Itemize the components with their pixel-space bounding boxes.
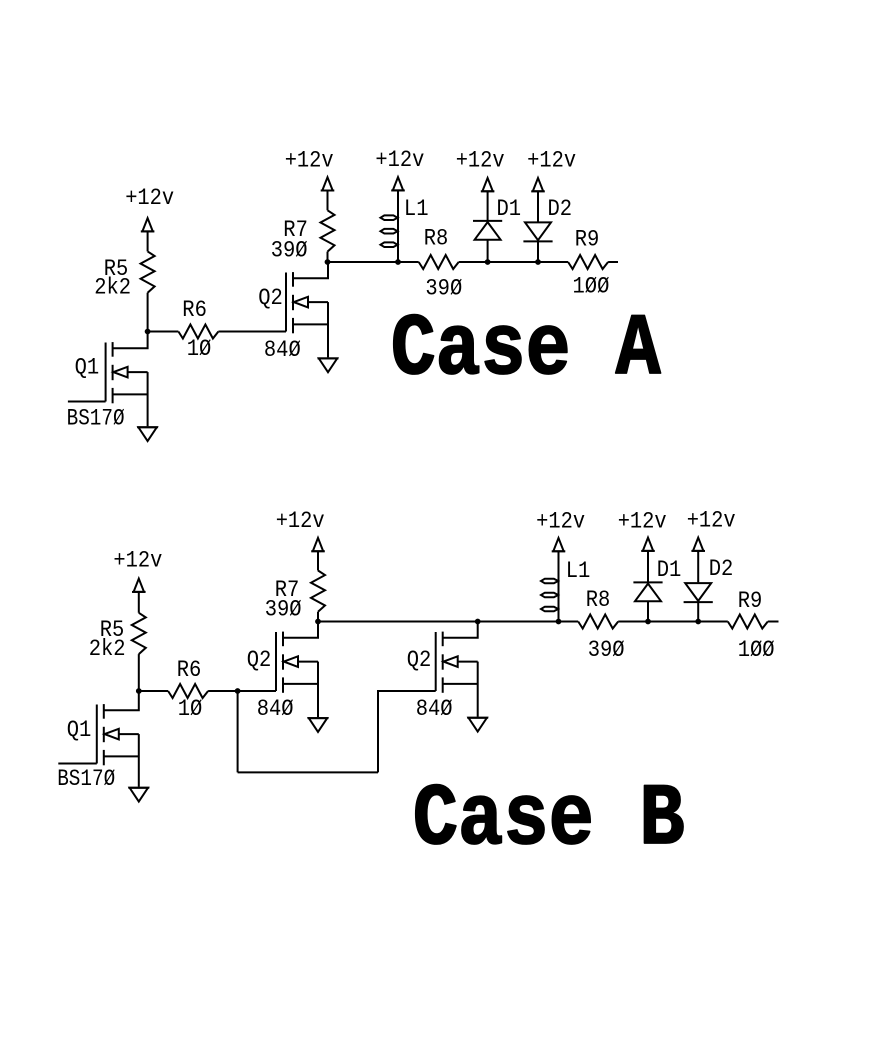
wire node to R6 (Case B) — [139, 690, 168, 692]
wire R6 to gate node (Case B) — [208, 690, 238, 692]
svg-text:Case A: Case A — [391, 302, 662, 400]
wire Q1 gate lead (Case B) — [58, 763, 97, 765]
node: D1 junction (Case B) — [645, 619, 651, 625]
wire R5 bottom to node (Case B) — [138, 654, 140, 691]
svg-text:1Ø: 1Ø — [187, 336, 212, 362]
wire R7 bottom to node (Case B) — [317, 612, 319, 622]
ground (Q1 source, Case B) — [128, 788, 149, 802]
resistor R6 (Case A) — [178, 325, 218, 339]
svg-text:L1: L1 — [404, 196, 429, 222]
resistor R9 (Case B) — [728, 615, 768, 629]
svg-text:84Ø: 84Ø — [257, 696, 294, 722]
svg-text:R8: R8 — [424, 226, 449, 252]
svg-text:R8: R8 — [586, 587, 611, 613]
wire bottom run (Case B) — [238, 771, 378, 773]
power +12v symbol (D1, Case A) — [481, 178, 495, 193]
wire R9 output stub (Case B) — [768, 621, 779, 623]
svg-text:Q1: Q1 — [67, 717, 92, 743]
node: R5/R6/Q1-drain junction (Case B) — [136, 688, 142, 694]
svg-text:D1: D1 — [497, 196, 522, 222]
node: gate junction (Case B) — [235, 688, 241, 694]
svg-text:Q2: Q2 — [407, 647, 432, 673]
wire bottom run up to Q2b gate (Case B) — [378, 691, 436, 772]
transistor Q2 (Case A) — [286, 262, 328, 357]
svg-text:R6: R6 — [182, 297, 207, 323]
power +12v symbol (D2, Case A) — [531, 178, 545, 193]
wire drain row: R7 node to L1 (Case B) — [318, 621, 578, 623]
diode D2 (Case A) — [523, 192, 552, 263]
node: Q2b drain junction (Case B) — [475, 619, 481, 625]
wire R9 output stub (Case A) — [608, 261, 618, 263]
node: L1 junction (Case B) — [556, 619, 562, 625]
svg-text:+12v: +12v — [276, 508, 325, 534]
transistor Q2 second (Case B) — [436, 622, 478, 717]
svg-text:+12v: +12v — [618, 509, 667, 535]
diode D1 (Case A) — [473, 192, 502, 263]
transistor Q1 (Case B) — [97, 691, 139, 787]
resistor R7 (Case B) — [311, 571, 325, 612]
power +12v symbol (D2, Case B) — [691, 538, 705, 553]
resistor R5 (Case B) — [132, 613, 146, 654]
wire R8 to D1/D2/R9 (Case B) — [618, 621, 728, 623]
transistor Q1 (Case A) — [106, 332, 148, 427]
svg-text:D2: D2 — [709, 556, 734, 582]
resistor R9 (Case A) — [568, 255, 608, 269]
node: R7/Q2-drain/output junction (Case A) — [325, 259, 331, 265]
svg-text:D2: D2 — [548, 196, 573, 222]
wire gate node down to bottom run (Case B) — [237, 691, 239, 772]
wire Q1 gate lead (Case A) — [68, 401, 106, 403]
svg-text:84Ø: 84Ø — [264, 337, 301, 363]
svg-text:+12v: +12v — [456, 148, 505, 174]
wire R5 bottom to node (Case A) — [147, 293, 149, 332]
svg-text:39Ø: 39Ø — [425, 276, 462, 302]
svg-text:+12v: +12v — [687, 508, 736, 534]
svg-text:2k2: 2k2 — [89, 636, 126, 662]
ground (Q1 source, Case A) — [137, 427, 158, 441]
svg-text:+12v: +12v — [536, 509, 585, 535]
resistor R8 (Case A) — [419, 255, 459, 269]
inductor L1 (Case B) — [541, 551, 559, 621]
node: L1 junction (Case A) — [395, 259, 401, 265]
inductor L1 (Case A) — [381, 191, 399, 263]
node: R5/R6/Q1-drain junction (Case A) — [145, 329, 151, 335]
resistor R7 (Case A) — [321, 210, 335, 251]
svg-text:L1: L1 — [566, 558, 591, 584]
svg-text:1ØØ: 1ØØ — [573, 274, 610, 300]
diode D1 (Case B) — [633, 551, 662, 621]
svg-text:R6: R6 — [177, 657, 202, 683]
svg-text:BS17Ø: BS17Ø — [57, 766, 115, 792]
svg-text:1ØØ: 1ØØ — [738, 637, 775, 663]
power +12v symbol (R7, Case A) — [321, 177, 335, 210]
power +12v symbol (D1, Case B) — [641, 538, 655, 553]
svg-text:Case B: Case B — [413, 772, 685, 870]
svg-text:+12v: +12v — [527, 148, 576, 174]
svg-text:2k2: 2k2 — [94, 275, 131, 301]
svg-text:39Ø: 39Ø — [588, 637, 625, 663]
svg-text:+12v: +12v — [113, 548, 162, 574]
svg-text:+12v: +12v — [125, 185, 174, 211]
diode D2 (Case B) — [684, 551, 713, 621]
wire R6 to Q2 gate (Case A) — [218, 331, 286, 333]
power +12v symbol (L1, Case A) — [391, 177, 405, 192]
wire gate node to Q2a gate (Case B) — [238, 690, 276, 692]
svg-text:D1: D1 — [657, 557, 682, 583]
svg-text:+12v: +12v — [285, 148, 334, 174]
power +12v symbol (R5, Case A) — [141, 218, 155, 251]
ground (Q2 source, Case A) — [318, 358, 339, 372]
resistor R5 (Case A) — [141, 251, 155, 292]
svg-text:BS17Ø: BS17Ø — [67, 406, 125, 432]
ground (Q2 first source, Case B) — [308, 718, 329, 732]
svg-text:1Ø: 1Ø — [178, 696, 203, 722]
wire R8 to D1/D2/R9 (Case A) — [459, 261, 568, 263]
power +12v symbol (R5, Case B) — [132, 579, 146, 613]
power +12v symbol (R7, Case B) — [311, 538, 325, 571]
resistor R8 (Case B) — [578, 615, 618, 629]
node: D1 junction (Case A) — [485, 259, 491, 265]
wire R7 bottom to node (Case A) — [327, 252, 329, 262]
svg-text:+12v: +12v — [375, 147, 424, 173]
transistor Q2 first (Case B) — [276, 622, 318, 718]
svg-text:39Ø: 39Ø — [271, 238, 308, 264]
svg-text:Q2: Q2 — [247, 647, 272, 673]
ground (Q2 second source, Case B) — [467, 718, 488, 732]
node: D2 junction (Case A) — [535, 259, 541, 265]
svg-text:84Ø: 84Ø — [416, 696, 453, 722]
svg-text:Q1: Q1 — [75, 354, 100, 380]
svg-text:R9: R9 — [738, 588, 763, 614]
svg-text:39Ø: 39Ø — [265, 597, 302, 623]
svg-text:R9: R9 — [575, 227, 600, 253]
resistor R6 (Case B) — [168, 684, 208, 698]
node: R7/Q2a-drain junction (Case B) — [315, 619, 321, 625]
svg-text:Q2: Q2 — [258, 285, 283, 311]
power +12v symbol (L1, Case B) — [552, 538, 566, 552]
wire node to R6 (Case A) — [148, 331, 179, 333]
node: D2 junction (Case B) — [695, 619, 701, 625]
wire output row: R7 node to R8 (Case A) — [328, 261, 419, 263]
